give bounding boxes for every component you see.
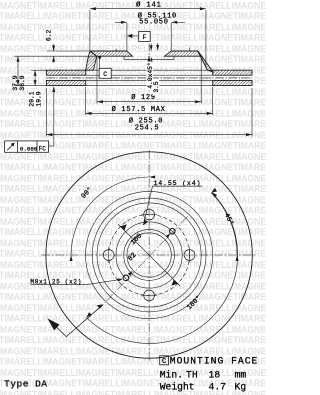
- F flag triangle: [127, 34, 132, 38]
- bolt hole right: [184, 250, 195, 261]
- 20.1 dim: [31, 69, 46, 71]
- 90 deg arc: [71, 177, 149, 255]
- 20.1 arrows: [34, 70, 37, 76]
- svg-text:Ø 141: Ø 141: [136, 1, 162, 10]
- 3.5 arrow: [150, 58, 153, 64]
- d82 dim arrows on 45 axis: [166, 233, 171, 238]
- svg-text:0.080: 0.080: [20, 145, 38, 152]
- dia 157.5 dim: [86, 112, 213, 114]
- hat plate right of bore (hatched): [165, 51, 202, 56]
- svg-text:254.5: 254.5: [135, 125, 160, 133]
- bore chamfer circle: [124, 230, 175, 281]
- svg-text:14.55 (x4): 14.55 (x4): [154, 180, 202, 188]
- hat plate left of bore (hatched): [90, 51, 132, 56]
- front view filled items: [48, 176, 239, 331]
- small arrow at end of view leader: [97, 304, 104, 308]
- svg-text:55.050: 55.050: [139, 19, 168, 27]
- bolt hole left: [103, 250, 114, 261]
- big view arrow: [48, 319, 60, 331]
- M8 hole marker SW (circle with slash): [123, 275, 129, 281]
- svg-text:Ø 157.5 MAX: Ø 157.5 MAX: [112, 105, 166, 114]
- 45 arc arrow east end (points down): [236, 255, 239, 261]
- M8 hole marker NE (circle with slash): [170, 229, 176, 235]
- svg-text:M8x1.25 (x2): M8x1.25 (x2): [30, 278, 82, 285]
- right hat wall (hatched): [198, 51, 213, 72]
- d255 arrows: [46, 133, 52, 136]
- dia 141 dim: [90, 8, 206, 10]
- d157.5 circle: [86, 191, 213, 318]
- 4.0x45 arrow: [148, 56, 151, 62]
- view arrow tail: [57, 305, 103, 336]
- centerline section: [148, 44, 150, 92]
- svg-text:3.5: 3.5: [153, 81, 160, 93]
- 37.9 arrows: [17, 56, 20, 62]
- svg-text:C: C: [103, 71, 107, 78]
- d129 circle: [97, 203, 201, 307]
- svg-text:FC: FC: [39, 145, 47, 152]
- 14.55 underline: [153, 185, 203, 187]
- svg-text:6.2: 6.2: [46, 30, 53, 42]
- section dimension texts: [136, 1, 162, 10]
- 14.55 arrow: [143, 219, 148, 225]
- 4.0x45 leader line: [148, 56, 150, 91]
- d141 arrows: [90, 7, 96, 10]
- down arrow right of F: [156, 45, 159, 51]
- F leader: [128, 35, 139, 37]
- svg-text:36.9: 36.9: [19, 75, 26, 90]
- svg-text:19.9: 19.9: [35, 91, 42, 106]
- svg-text:MOUNTING FACE: MOUNTING FACE: [170, 356, 259, 367]
- d100 dim line NW-SE: [118, 224, 180, 286]
- dia 129 dim: [97, 101, 201, 103]
- svg-text:C: C: [162, 358, 166, 366]
- svg-text:Ø 129: Ø 129: [131, 93, 156, 102]
- d157 arrows: [86, 112, 92, 115]
- d141 circle: [92, 198, 206, 312]
- small down arrow right of F: [157, 43, 159, 50]
- FC leader arrow: [52, 87, 55, 93]
- C datum box (section) with leader: [98, 56, 112, 78]
- d129 arrows: [97, 100, 103, 103]
- small arrow above plate center: [150, 44, 152, 51]
- section arrowheads: [17, 7, 253, 136]
- 45deg axis through M8 holes: [105, 216, 189, 303]
- svg-text:Type DA: Type DA: [4, 379, 47, 390]
- 45 deg arc: [211, 193, 237, 255]
- 180 arc arrow SW end (points up-left): [87, 312, 92, 318]
- M8 leader arrow: [117, 279, 123, 282]
- dia 255 dim: [46, 134, 252, 136]
- 180 arc arrow NE end (points up-left): [212, 192, 218, 197]
- hub boss under plate: [124, 56, 174, 59]
- 6.2 ext lines: [47, 50, 90, 52]
- main centerlines: [41, 254, 257, 256]
- hole cross ticks: [109, 215, 190, 296]
- 45 arc arrow NE end (points up-left): [211, 188, 218, 195]
- F datum box: [139, 31, 151, 41]
- M8 label leader: [30, 280, 117, 285]
- svg-text:F: F: [142, 34, 146, 41]
- 14.55 leader: [143, 186, 202, 225]
- d100 dim arrows: [121, 224, 127, 230]
- FC runout feature control frame: [5, 141, 49, 153]
- 180 deg arc: [87, 192, 238, 343]
- FC leader: [53, 87, 55, 147]
- left band top bar (hatched): [46, 70, 85, 75]
- arrow above plate: [150, 45, 153, 51]
- right band bottom bar (hatched): [213, 80, 252, 85]
- front view texts: [154, 180, 202, 188]
- M8 hole tick on plate (left, BC82): [115, 49, 117, 52]
- 37.9 dim: [14, 55, 47, 57]
- 90 arc arrow north end (points right): [149, 176, 155, 179]
- band lines continuing under hat: [86, 70, 213, 85]
- bolt circle tick on plate (right, BC100): [189, 48, 191, 52]
- d55 arrows: [121, 21, 127, 24]
- bore d55 circle: [127, 233, 171, 277]
- 6.2 arrows: [52, 46, 55, 52]
- left band bottom bar (hatched): [46, 80, 85, 85]
- d82 circle: [116, 222, 182, 288]
- bolt hole bottom: [144, 290, 155, 301]
- right band top bar (hatched): [213, 70, 252, 75]
- bolt hole top: [144, 209, 155, 220]
- d100 bolt circle (dashed): [109, 215, 190, 296]
- outer circle d255: [46, 152, 252, 358]
- vent channel centerline: [46, 77, 252, 79]
- 90 arc arrow west end (points down): [70, 255, 73, 261]
- 3.5 leader line: [151, 58, 153, 88]
- left hat wall (hatched): [86, 51, 97, 70]
- dia 55 dim: [115, 21, 127, 23]
- bottom-right info block: [160, 356, 259, 393]
